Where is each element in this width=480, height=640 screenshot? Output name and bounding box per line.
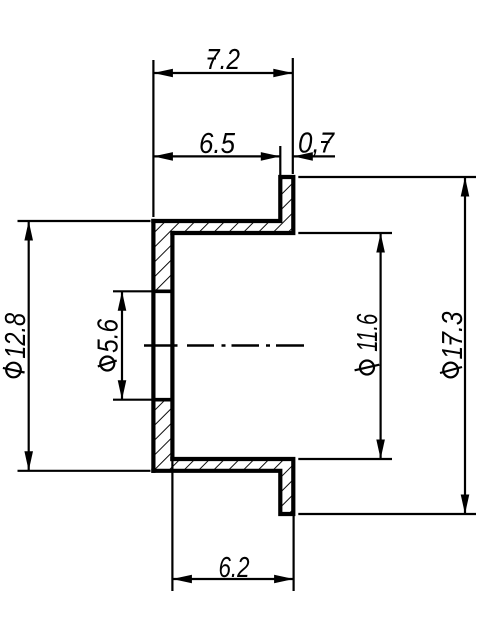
svg-text:12.8: 12.8 (0, 313, 32, 359)
svg-text:11.6: 11.6 (352, 313, 384, 352)
svg-text:6.2: 6.2 (218, 552, 249, 584)
svg-text:0,7: 0,7 (298, 127, 336, 159)
svg-text:5.6: 5.6 (93, 318, 125, 353)
svg-text:6.5: 6.5 (199, 128, 236, 160)
svg-text:17.3: 17.3 (437, 312, 469, 360)
svg-text:7.2: 7.2 (206, 44, 240, 76)
